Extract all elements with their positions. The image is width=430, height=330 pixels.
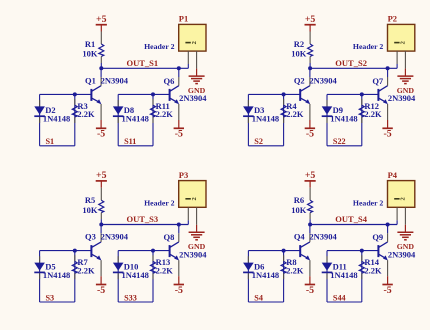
junction: base node (Q4) <box>282 249 286 253</box>
-5V power symbol (Q1 emitter) <box>96 104 106 140</box>
svg-text:10K: 10K <box>82 49 98 59</box>
junction: base node (Q7) <box>360 92 364 96</box>
svg-text:GND: GND <box>188 86 206 95</box>
svg-text:2: 2 <box>400 197 407 200</box>
wire: sensor loop S33 (left/top/bottom sides) <box>118 251 153 302</box>
resistor R3 2.2K <box>72 99 95 123</box>
svg-text:S44: S44 <box>333 293 346 302</box>
svg-text:2.2K: 2.2K <box>364 109 382 119</box>
svg-text:2N3904: 2N3904 <box>101 232 129 242</box>
svg-text:-5: -5 <box>97 285 105 296</box>
svg-text:1N4148: 1N4148 <box>122 114 149 124</box>
wire: sensor loop S11 (left/top/bottom sides) <box>118 94 153 145</box>
resistor R7 2.2K <box>72 255 95 279</box>
+5V power symbol (R1 supply) <box>96 14 107 32</box>
diode D9 1N4148 <box>322 100 358 124</box>
wire: net riser to P4 pin 1 <box>396 220 398 224</box>
wire: sensor loop S2 (left/top/bottom sides) <box>248 94 283 145</box>
resistor R12 2.2K <box>359 99 382 123</box>
pin 1 of P1 <box>187 51 189 64</box>
junction: base node (Q2) <box>282 92 286 96</box>
junction: base node (Q8) <box>151 249 155 253</box>
resistor R13 2.2K <box>151 255 174 279</box>
diode D11 1N4148 <box>322 256 358 280</box>
svg-text:1N4148: 1N4148 <box>330 270 357 280</box>
svg-text:+5: +5 <box>96 170 107 181</box>
junction: node B <box>386 223 390 227</box>
svg-text:Q4: Q4 <box>294 232 306 242</box>
diode D8 1N4148 <box>113 100 149 124</box>
pin 2 of P4 <box>404 207 406 225</box>
junction: base node (Q6) <box>151 92 155 96</box>
pin 1 of P3 <box>187 207 189 220</box>
junction: node B <box>177 223 181 227</box>
wire: node to Q4 base <box>284 250 301 252</box>
svg-text:+5: +5 <box>305 14 316 25</box>
wire: sensor loop S22 (left/top/bottom sides) <box>327 94 362 145</box>
transistor Q6 2N3904 (NPN) <box>164 68 208 104</box>
wire: sensor loop S4 (left/top/bottom sides) <box>248 251 283 302</box>
svg-text:Header 2: Header 2 <box>353 198 383 207</box>
transistor Q4 2N3904 (NPN) <box>294 225 338 261</box>
svg-text:GND: GND <box>397 86 415 95</box>
wire: node to Q9 base <box>362 250 379 252</box>
svg-text:Q9: Q9 <box>372 232 383 242</box>
junction: base node (Q3) <box>73 249 77 253</box>
resistor R8 2.2K <box>281 255 304 279</box>
wire: R bottom to node A <box>309 63 311 68</box>
wire: +5 rail to R top <box>309 188 311 201</box>
svg-text:2N3904: 2N3904 <box>309 75 337 85</box>
svg-text:2.2K: 2.2K <box>286 265 304 275</box>
pin number 1 (P1) <box>185 42 190 44</box>
pin number 1 (P2) <box>394 42 399 44</box>
wire: node to Q8 base <box>153 250 170 252</box>
transistor Q8 2N3904 (NPN) <box>164 225 208 261</box>
svg-text:-5: -5 <box>384 129 392 140</box>
svg-text:2N3904: 2N3904 <box>309 232 337 242</box>
resistor R2 10K <box>291 39 312 63</box>
svg-text:S3: S3 <box>46 293 55 302</box>
connector P2 (Header 2) <box>353 14 415 69</box>
-5V power symbol (Q3 emitter) <box>96 260 106 296</box>
pin 2 of P3 <box>196 207 198 225</box>
wire: net OUT_S3 horizontal <box>101 224 188 226</box>
svg-text:Q3: Q3 <box>85 232 96 242</box>
junction: node B <box>386 66 390 70</box>
wire: sensor loop S3 (left/top/bottom sides) <box>40 251 75 302</box>
wire: net riser to P1 pin 1 <box>187 64 189 68</box>
diode D2 1N4148 <box>34 100 70 124</box>
svg-text:S4: S4 <box>254 293 263 302</box>
junction: node A <box>308 66 312 70</box>
wire: node to Q2 base <box>284 93 301 95</box>
resistor R14 2.2K <box>359 255 382 279</box>
svg-text:GND: GND <box>188 242 206 251</box>
junction: base node (Q1) <box>73 92 77 96</box>
svg-text:P4: P4 <box>388 170 398 180</box>
svg-text:GND: GND <box>397 242 415 251</box>
wire: sensor loop S44 (left/top/bottom sides) <box>327 251 362 302</box>
diode D10 1N4148 <box>113 256 149 280</box>
svg-text:1N4148: 1N4148 <box>43 270 70 280</box>
transistor Q3 2N3904 (NPN) <box>85 225 129 261</box>
transistor Q7 2N3904 (NPN) <box>372 68 416 104</box>
svg-text:Q7: Q7 <box>372 76 384 86</box>
svg-text:P2: P2 <box>388 14 397 24</box>
svg-text:S2: S2 <box>254 137 263 146</box>
svg-text:10K: 10K <box>291 205 307 215</box>
svg-text:2.2K: 2.2K <box>156 109 174 119</box>
svg-text:S33: S33 <box>124 293 137 302</box>
svg-text:Header 2: Header 2 <box>144 198 174 207</box>
svg-text:R6: R6 <box>294 195 304 205</box>
junction: node A <box>308 223 312 227</box>
wire: node to Q6 base <box>153 93 170 95</box>
svg-text:1N4148: 1N4148 <box>330 114 357 124</box>
-5V power symbol (Q6 emitter) <box>174 104 184 140</box>
connector P4 (Header 2) <box>353 170 415 225</box>
svg-text:2N3904: 2N3904 <box>101 75 129 85</box>
svg-text:P1: P1 <box>179 14 188 24</box>
svg-text:R2: R2 <box>294 39 304 49</box>
pin 2 of P2 <box>404 51 406 69</box>
svg-text:Q1: Q1 <box>85 75 96 85</box>
svg-text:2.2K: 2.2K <box>364 265 382 275</box>
svg-text:-5: -5 <box>306 285 314 296</box>
svg-text:OUT_S2: OUT_S2 <box>335 58 367 68</box>
+5V power symbol (R6 supply) <box>305 170 316 188</box>
diode D6 1N4148 <box>243 256 279 280</box>
svg-text:R5: R5 <box>85 195 95 205</box>
wire: node to Q1 base <box>75 93 92 95</box>
resistor R4 2.2K <box>281 99 304 123</box>
diode D5 1N4148 <box>34 256 70 280</box>
wire: net riser to P3 pin 1 <box>187 220 189 224</box>
pin number 1 (P4) <box>394 198 399 200</box>
wire: +5 rail to R top <box>100 188 102 201</box>
svg-text:-5: -5 <box>384 285 392 296</box>
svg-text:2.2K: 2.2K <box>77 265 95 275</box>
svg-text:2: 2 <box>191 41 198 44</box>
-5V power symbol (Q2 emitter) <box>305 104 315 140</box>
svg-text:Q6: Q6 <box>164 76 175 86</box>
junction: node B <box>177 66 181 70</box>
wire: node to Q3 base <box>75 250 92 252</box>
wire: +5 rail to R top <box>100 32 102 45</box>
svg-text:S11: S11 <box>124 137 136 146</box>
wire: R bottom to node A <box>100 219 102 224</box>
wire: net OUT_S4 horizontal <box>310 224 397 226</box>
ground GND <box>188 69 206 95</box>
pin 1 of P4 <box>396 207 398 220</box>
svg-text:Q2: Q2 <box>294 75 305 85</box>
svg-text:2: 2 <box>191 197 198 200</box>
-5V power symbol (Q7 emitter) <box>382 104 392 140</box>
svg-text:Header 2: Header 2 <box>353 42 383 51</box>
svg-text:S22: S22 <box>333 137 346 146</box>
svg-text:+5: +5 <box>305 170 316 181</box>
svg-text:P3: P3 <box>179 170 188 180</box>
resistor R11 2.2K <box>151 99 174 123</box>
svg-text:-5: -5 <box>97 129 105 140</box>
wire: +5 rail to R top <box>309 32 311 45</box>
svg-text:OUT_S1: OUT_S1 <box>127 58 159 68</box>
svg-text:-5: -5 <box>175 285 183 296</box>
resistor R1 10K <box>82 39 103 63</box>
svg-text:-5: -5 <box>175 129 183 140</box>
connector P3 (Header 2) <box>144 170 206 225</box>
pin 2 of P1 <box>196 51 198 69</box>
wire: R bottom to node A <box>309 219 311 224</box>
-5V power symbol (Q9 emitter) <box>382 260 392 296</box>
wire: R bottom to node A <box>100 63 102 68</box>
junction: base node (Q9) <box>360 249 364 253</box>
pin 1 of P2 <box>396 51 398 64</box>
svg-text:Q8: Q8 <box>164 232 175 242</box>
diode D3 1N4148 <box>243 100 279 124</box>
svg-text:-5: -5 <box>306 129 314 140</box>
svg-text:R1: R1 <box>85 39 95 49</box>
svg-text:OUT_S4: OUT_S4 <box>335 214 367 224</box>
transistor Q2 2N3904 (NPN) <box>294 68 338 104</box>
junction: node A <box>99 223 103 227</box>
-5V power symbol (Q4 emitter) <box>305 260 315 296</box>
transistor Q9 2N3904 (NPN) <box>372 225 416 261</box>
svg-text:S1: S1 <box>46 137 55 146</box>
junction: node A <box>99 66 103 70</box>
svg-text:OUT_S3: OUT_S3 <box>127 214 159 224</box>
resistor R5 10K <box>82 195 103 219</box>
svg-text:+5: +5 <box>96 14 107 25</box>
connector P1 (Header 2) <box>144 14 206 69</box>
svg-text:10K: 10K <box>291 49 307 59</box>
ground GND <box>188 225 206 251</box>
svg-text:1N4148: 1N4148 <box>43 114 70 124</box>
svg-text:1N4148: 1N4148 <box>252 270 279 280</box>
svg-text:2: 2 <box>400 41 407 44</box>
svg-text:2.2K: 2.2K <box>77 109 95 119</box>
ground GND <box>397 225 415 251</box>
ground GND <box>397 69 415 95</box>
wire: net OUT_S2 horizontal <box>310 67 397 69</box>
+5V power symbol (R5 supply) <box>96 170 107 188</box>
wire: node to Q7 base <box>362 93 379 95</box>
-5V power symbol (Q8 emitter) <box>174 260 184 296</box>
wire: net OUT_S1 horizontal <box>101 67 188 69</box>
svg-text:10K: 10K <box>82 205 98 215</box>
svg-text:Header 2: Header 2 <box>144 42 174 51</box>
svg-text:1N4148: 1N4148 <box>122 270 149 280</box>
transistor Q1 2N3904 (NPN) <box>85 68 129 104</box>
resistor R6 10K <box>291 195 312 219</box>
wire: net riser to P2 pin 1 <box>396 64 398 68</box>
wire: sensor loop S1 (left/top/bottom sides) <box>40 94 75 145</box>
svg-text:2.2K: 2.2K <box>286 109 304 119</box>
svg-text:2.2K: 2.2K <box>156 265 174 275</box>
+5V power symbol (R2 supply) <box>305 14 316 32</box>
svg-text:1N4148: 1N4148 <box>252 114 279 124</box>
pin number 1 (P3) <box>185 198 190 200</box>
